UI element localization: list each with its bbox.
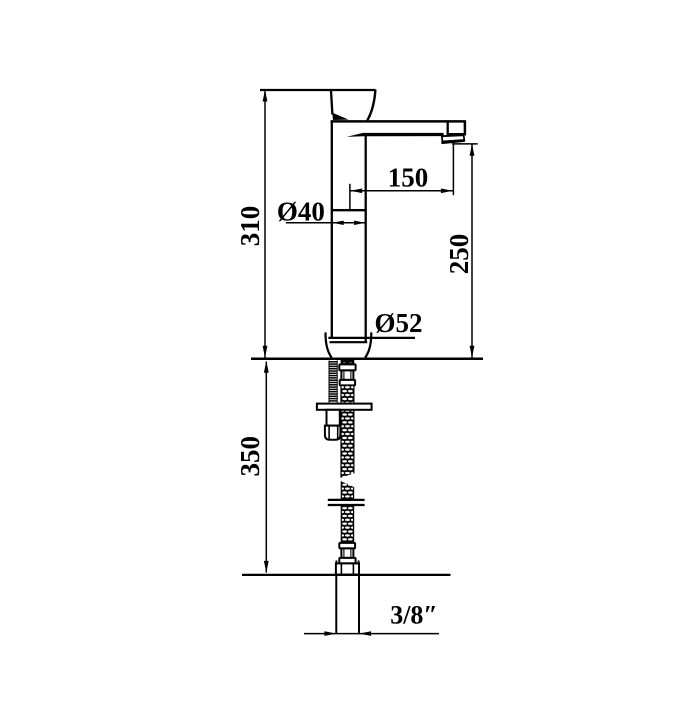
svg-text:310: 310 bbox=[235, 206, 265, 247]
arrow top of 310 dim bbox=[263, 90, 268, 102]
extension line at spout outlet for 250 dim bbox=[452, 143, 478, 145]
arrow bottom of 350 dim bbox=[264, 561, 269, 573]
svg-text:3/8″: 3/8″ bbox=[390, 601, 438, 630]
base top rim line + Ø52 leader bbox=[328, 337, 415, 339]
dimension line 250 bbox=[471, 144, 473, 357]
stud lower section bbox=[327, 410, 340, 426]
mounting plate bbox=[317, 404, 372, 410]
braided hose upper segment bbox=[341, 385, 354, 477]
body cartridge joint line bbox=[331, 209, 367, 211]
hose end nut facets bbox=[340, 564, 342, 574]
washer white gap bbox=[328, 501, 365, 505]
handle lever tip wedge bbox=[332, 113, 348, 120]
extension line below outlet for 150 dim bbox=[452, 145, 454, 196]
dimension line 310 bbox=[264, 90, 266, 358]
faucet body left edge bbox=[331, 121, 333, 339]
extension line at body center for 150 dim bbox=[349, 184, 351, 211]
arrow right of 150 dim bbox=[441, 189, 453, 194]
hose end collar 2 bbox=[339, 558, 355, 564]
arrow bottom of 310 dim bbox=[263, 346, 268, 358]
spout top edge bbox=[331, 120, 466, 123]
arrow bottom of 250 dim bbox=[470, 346, 475, 358]
bottom reference line bbox=[242, 574, 451, 576]
base skirt right profile bbox=[365, 332, 371, 357]
hose end collar 1 bbox=[339, 543, 355, 549]
hose hex fitting bbox=[339, 364, 355, 370]
dimension line 350 bbox=[265, 362, 267, 573]
arrow top of 250 dim bbox=[470, 144, 475, 156]
braided hose lower segment bbox=[341, 481, 353, 543]
arrow left of 150 dim bbox=[350, 189, 362, 194]
svg-text:Ø40: Ø40 bbox=[277, 196, 325, 226]
aerator outlet bottom face bbox=[441, 140, 465, 145]
svg-text:Ø52: Ø52 bbox=[374, 308, 422, 338]
washer upper line bbox=[328, 499, 365, 501]
aerator outlet piece bbox=[442, 135, 465, 141]
counter reference line bbox=[251, 358, 483, 361]
arrow at body right edge Ø40 bbox=[354, 221, 366, 225]
handle right curved edge bbox=[367, 90, 375, 121]
faucet handle top edge + 310 top extension line bbox=[260, 89, 376, 91]
dimension line 150 bbox=[350, 190, 453, 192]
faucet body right edge bbox=[365, 135, 367, 343]
hose end nut top ticks bbox=[335, 560, 337, 563]
hose fitting collar bbox=[340, 380, 355, 386]
spout end block bottom edge bbox=[447, 133, 466, 135]
stud thread ticks bbox=[329, 362, 338, 401]
hose nipple right bbox=[348, 361, 353, 364]
hose nipple left bbox=[342, 361, 347, 364]
nut facet lines bbox=[328, 426, 330, 439]
mounting nut bbox=[325, 426, 341, 440]
svg-text:350: 350 bbox=[235, 436, 265, 477]
hose end neck bbox=[341, 548, 353, 558]
base skirt left profile bbox=[325, 332, 331, 357]
spout end block divider bbox=[447, 121, 449, 134]
dimension line 3/8 bbox=[304, 633, 439, 635]
arrow right of 3/8 dim bbox=[359, 631, 371, 636]
svg-text:250: 250 bbox=[444, 234, 474, 275]
washer lower line bbox=[328, 504, 365, 506]
connection tube right edge bbox=[358, 576, 360, 634]
base lower rim line bbox=[330, 341, 368, 343]
handle left edge bbox=[331, 89, 333, 115]
arrow left of 3/8 dim bbox=[324, 631, 336, 636]
hose end nut bbox=[336, 563, 359, 574]
leader line for Ø40 bbox=[286, 222, 366, 224]
hose fitting neck bbox=[341, 370, 353, 380]
spout underside tapered edge bbox=[347, 133, 444, 137]
arrow at body left edge Ø40 bbox=[332, 221, 344, 225]
connection tube left edge bbox=[335, 576, 337, 634]
threaded mounting stud below counter bbox=[329, 361, 337, 403]
svg-text:150: 150 bbox=[388, 162, 429, 192]
arrow top of 350 dim bbox=[264, 361, 269, 373]
spout end block right edge bbox=[464, 121, 467, 136]
